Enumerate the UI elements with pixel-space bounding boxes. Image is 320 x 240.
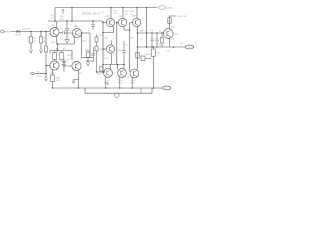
- resistor chain x96.5 upper: [96, 35, 98, 38]
- wire lower join y57.5: [82, 57, 94, 59]
- node y61 x88: [87, 60, 89, 62]
- svg-text:R19: R19: [125, 11, 130, 13]
- wire TR9 emitter: [169, 38, 171, 47]
- capacitor C11: [156, 33, 158, 39]
- wire TR2 emitter: [52, 70, 54, 75]
- node bottom x132: [131, 87, 133, 89]
- wire TR2 base: [46, 65, 50, 67]
- node bus y32.5: [102, 32, 104, 34]
- wire bias join y64.5: [103, 64, 124, 66]
- resistor R5 drop: [40, 32, 42, 37]
- ground arrow R3: [30, 50, 33, 53]
- wire bypass drop x67: [66, 21, 68, 28]
- node rail2 x67: [66, 20, 68, 22]
- svg-text:B507: B507: [118, 82, 124, 84]
- svg-text:50K: 50K: [60, 18, 64, 20]
- svg-text:470: 470: [56, 80, 60, 82]
- node out rail x137.5: [137, 46, 139, 48]
- capacitor C3 plates: [62, 31, 64, 34]
- svg-text:F: F: [108, 84, 110, 86]
- svg-text:C5: C5: [101, 12, 105, 14]
- wire lower right corner: [151, 88, 153, 93]
- node input x46: [45, 31, 47, 33]
- node bottom x153: [153, 87, 155, 89]
- capacitor C9: [151, 33, 153, 39]
- wire drop x72: [71, 8, 73, 22]
- wire TR8 emitter: [111, 53, 113, 65]
- svg-text:47: 47: [159, 30, 162, 32]
- wire base line into TR10: [97, 71, 106, 73]
- resistor R27 on collector: [168, 18, 171, 24]
- node rail x146.5: [146, 7, 148, 9]
- svg-text:C2: C2: [69, 24, 73, 26]
- input connector oval: [1, 30, 5, 33]
- resistor R25 beside bus: [100, 67, 103, 71]
- resistor R9 box: [53, 53, 57, 60]
- svg-text:R21: R21: [130, 11, 135, 13]
- svg-text:R16: R16: [104, 38, 109, 40]
- svg-text:R31: R31: [156, 53, 161, 55]
- node rail2 x72: [71, 20, 73, 22]
- svg-text:R9: R9: [56, 48, 60, 50]
- node out rail x153: [153, 46, 155, 48]
- ground arrow TR4: [74, 79, 79, 81]
- svg-text:R23: R23: [130, 38, 135, 40]
- oscillation suppressor circle: [115, 93, 120, 98]
- wire TR12 emitter to rail: [119, 77, 121, 88]
- svg-text:INPUT: INPUT: [5, 31, 12, 33]
- svg-text:R5: R5: [52, 25, 56, 27]
- svg-text:1K: 1K: [125, 14, 128, 16]
- wire TR7 base stub: [117, 22, 119, 24]
- power oval connector: [158, 6, 165, 10]
- node y64.5 x124: [123, 64, 125, 66]
- wire NF line: [35, 73, 47, 75]
- ground bypass open triangle: [65, 39, 69, 43]
- svg-text:0.47: 0.47: [167, 51, 172, 53]
- NF connector oval: [31, 72, 35, 74]
- wire left corner local rail: [49, 51, 51, 54]
- transistor TR5: [106, 18, 114, 26]
- svg-text:MODEL SE-A7: MODEL SE-A7: [82, 11, 101, 15]
- transistor TR8 bias: [106, 45, 114, 53]
- svg-text:R4: R4: [51, 15, 55, 17]
- wire TR7 base drop: [116, 23, 118, 65]
- wire TR10 collector up: [109, 65, 111, 70]
- transistor TR1: [50, 27, 59, 36]
- transistor TR14: [130, 69, 139, 78]
- wire TR9d base stub: [130, 22, 133, 24]
- capacitor C6 x93.5: [93, 47, 95, 53]
- node bottom x52: [52, 87, 54, 89]
- node y33 x157: [156, 32, 158, 34]
- node out rail x152: [151, 46, 152, 47]
- svg-text:0.5: 0.5: [140, 39, 144, 41]
- svg-text:TR8: TR8: [117, 50, 122, 52]
- node rail x137: [136, 7, 138, 9]
- svg-text:R35: R35: [172, 26, 177, 28]
- svg-text:R21: R21: [104, 58, 109, 60]
- wire TR9 collector to B+: [170, 16, 177, 29]
- svg-text:TR5: TR5: [106, 16, 111, 18]
- node out rail x157: [156, 46, 157, 47]
- svg-text:1K: 1K: [27, 41, 30, 43]
- svg-text:C13: C13: [170, 38, 175, 40]
- transistor TR3: [72, 28, 81, 37]
- svg-text:C1: C1: [15, 27, 19, 29]
- transistor TR9: [163, 29, 173, 39]
- svg-text:TR7: TR7: [118, 16, 123, 18]
- node collector x81.5: [81, 32, 83, 34]
- transistor TR10: [104, 69, 113, 78]
- transistor TR12: [118, 69, 127, 78]
- svg-text:B+(+73V): B+(+73V): [178, 16, 187, 18]
- svg-text:NF: NF: [37, 71, 40, 73]
- wire bypass lower: [66, 30, 68, 39]
- svg-text:TH 50: TH 50: [145, 54, 152, 56]
- node rail2 x55: [54, 20, 56, 22]
- resistor R29: [161, 33, 163, 38]
- capacitor C2 plates: [65, 27, 69, 29]
- thermistor block: [141, 56, 145, 61]
- svg-text:C6: C6: [91, 55, 95, 57]
- capacitor C7: [123, 41, 125, 50]
- ground arrow feedback: [45, 78, 48, 81]
- node bus y64.5: [102, 64, 104, 66]
- wire second rail: [48, 20, 103, 22]
- wire drop x81.5: [81, 33, 83, 58]
- node y33 x137.5: [137, 32, 139, 34]
- svg-text:TR9: TR9: [174, 34, 179, 36]
- svg-text:R27 10: R27 10: [140, 31, 148, 33]
- wire TR1 emitter: [57, 35, 74, 44]
- node rail2 x93: [92, 20, 94, 22]
- node x96.5 y72: [96, 71, 98, 73]
- node bus y72: [102, 71, 104, 73]
- node rail x111: [110, 7, 112, 9]
- output connector oval: [185, 45, 194, 49]
- node y33 x146.5: [146, 32, 148, 34]
- local rail y50.5: [50, 51, 72, 61]
- svg-text:47P: 47P: [33, 41, 37, 43]
- node bottom x119: [119, 87, 121, 89]
- wire TR3 emitter: [73, 37, 75, 44]
- svg-text:R3: R3: [27, 38, 31, 40]
- svg-text:B507: B507: [130, 83, 136, 85]
- wire TR8 base: [103, 48, 106, 50]
- wire drop x146.5 to output rail: [146, 8, 148, 48]
- wire TR14 emitter to rail: [131, 77, 133, 88]
- wire drop x90 corner: [89, 33, 91, 58]
- ground arrow R5: [40, 50, 43, 53]
- bottom connector oval: [162, 86, 171, 90]
- wire TR4 emitter: [77, 70, 79, 88]
- trimmer VR1: [62, 9, 64, 14]
- svg-text:TR4: TR4: [78, 73, 83, 75]
- wire TR9 base line y33: [138, 32, 164, 34]
- resistor R3 drop: [30, 32, 32, 37]
- diode pair D1 D2: [63, 59, 65, 73]
- node y33 x152: [151, 32, 153, 34]
- node x129.5 emitter: [129, 29, 131, 31]
- wire C3 to TR3: [64, 32, 72, 34]
- svg-text:1K: 1K: [51, 18, 54, 20]
- svg-text:(+38V): (+38V): [167, 8, 173, 10]
- svg-text:C8: C8: [33, 38, 37, 40]
- wire lower line: [85, 92, 152, 94]
- wire TR12 collector up: [123, 65, 125, 70]
- node bus y49: [102, 48, 104, 50]
- svg-text:R25: R25: [97, 73, 102, 75]
- svg-text:C9: C9: [150, 30, 154, 32]
- node bus base TR5: [102, 22, 104, 24]
- svg-text:4K: 4K: [43, 41, 46, 43]
- transistor TR4: [72, 61, 81, 70]
- wire thermistor link: [145, 58, 151, 60]
- wire TR8 collector: [111, 41, 113, 46]
- wire long drop to bottom: [152, 47, 154, 49]
- wire bottom rail: [53, 87, 163, 89]
- wire TR1 collector: [56, 21, 58, 29]
- node y64.5 x117.5: [117, 64, 119, 66]
- svg-text:220: 220: [114, 13, 118, 15]
- svg-text:R13: R13: [68, 55, 73, 57]
- wire collector TR7 to rail: [122, 8, 124, 19]
- svg-text:C3: C3: [61, 29, 65, 31]
- wire top rail: [55, 7, 157, 9]
- node y33 x162: [161, 32, 163, 34]
- node bottom x78: [78, 87, 80, 89]
- node emitter join: [57, 43, 59, 45]
- transistor TR7: [118, 18, 126, 26]
- node bottom x105: [105, 87, 107, 89]
- wire lower line left corner: [84, 88, 86, 93]
- node out rail x173.5: [173, 46, 175, 48]
- wire TR5 emitter: [103, 26, 114, 33]
- node out rail x146.5: [146, 46, 148, 48]
- wire left drop from top rail: [54, 8, 56, 22]
- wire TR10 emitter to rail: [105, 77, 107, 88]
- node x116.8 base: [116, 22, 118, 24]
- svg-text:R10: R10: [83, 40, 88, 42]
- svg-text:R33: R33: [56, 77, 61, 79]
- svg-text:100P: 100P: [36, 76, 41, 78]
- resistor R33 feedback: [51, 75, 55, 82]
- svg-text:TR1: TR1: [51, 42, 56, 44]
- wire TR7 emitter: [124, 26, 130, 30]
- wire input line: [11, 31, 51, 33]
- svg-text:10/50: 10/50: [15, 35, 21, 37]
- wire emitter tail: [57, 44, 59, 51]
- wire TR3 collector right: [82, 32, 91, 34]
- svg-text:R1 47K: R1 47K: [23, 29, 31, 31]
- resistor R15: [86, 52, 90, 58]
- ground arrow x88: [87, 63, 90, 66]
- resistor R11 box: [60, 53, 64, 60]
- wire collector TR9d to rail: [136, 8, 138, 19]
- wire diode to TR4 base: [66, 65, 73, 67]
- node fb base: [45, 65, 47, 67]
- wire lower to rail connector: [140, 88, 142, 93]
- svg-text:R17: R17: [114, 10, 119, 12]
- wire TR9d base drop: [129, 23, 131, 72]
- fuse tick F: [106, 83, 108, 86]
- resistor chain x96.5 lower: [96, 42, 98, 46]
- node rail x123: [122, 7, 124, 9]
- capacitor C1 input: [17, 30, 20, 33]
- wire base bus x103: [102, 23, 104, 73]
- resistor R31 box: [151, 49, 155, 56]
- svg-text:(8): (8): [181, 43, 184, 45]
- wire TR9d emitter output node: [137, 27, 139, 70]
- node input x41: [40, 31, 42, 33]
- node NF join: [45, 73, 47, 75]
- node input x31: [30, 31, 32, 33]
- wire rail to TR5 base: [103, 21, 107, 23]
- capacitor C4 drop x93: [92, 21, 94, 24]
- node rail x72: [71, 7, 73, 9]
- wire TR12 base drop: [117, 65, 119, 70]
- wire collector TR5 to rail: [110, 8, 112, 19]
- wire output rail: [138, 46, 186, 48]
- svg-text:R11: R11: [63, 48, 68, 50]
- wire TR3 base link: [59, 32, 62, 34]
- svg-text:D1: D1: [66, 60, 70, 62]
- resistor R23 on x137.5: [136, 53, 139, 59]
- wire feedback bus x46: [45, 32, 47, 47]
- transistor TR2: [50, 61, 59, 70]
- transistor TR9d: [132, 18, 140, 26]
- svg-text:TR9: TR9: [132, 16, 137, 18]
- wire y61 link: [86, 60, 94, 62]
- svg-text:C7: C7: [126, 45, 130, 47]
